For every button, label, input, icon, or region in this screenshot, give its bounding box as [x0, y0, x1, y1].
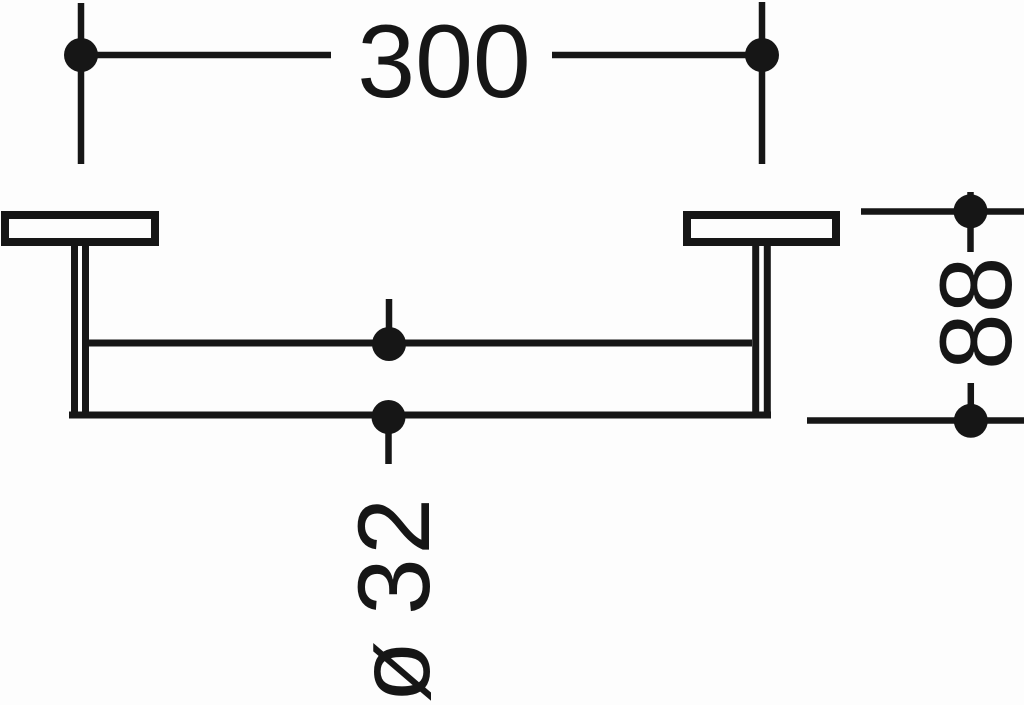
- extension line bottom (88 dim): [807, 417, 1024, 424]
- tick below bottom centre dot (Ø32 dim): [385, 430, 392, 464]
- right stem line b: [764, 244, 771, 415]
- svg-text:300: 300: [357, 4, 531, 120]
- right stem line a: [752, 244, 759, 415]
- extension line top (88 dim): [861, 208, 1024, 215]
- dimension line 300 left segment: [81, 52, 331, 59]
- bar top line: [89, 340, 752, 347]
- top dot terminator (88 dim): [954, 194, 988, 228]
- bottom dot terminator (88 dim): [954, 404, 988, 438]
- dimension line 300 right segment: [552, 52, 762, 59]
- tick above bottom dot (88 dim): [968, 383, 975, 413]
- wall plate left: [5, 215, 155, 242]
- extension line left (300 dim): [78, 3, 85, 164]
- left stem line b: [82, 244, 89, 413]
- bar bottom line: [69, 412, 771, 419]
- extension line right (300 dim): [759, 2, 766, 164]
- left stem line a: [71, 244, 78, 413]
- bottom centre dot (Ø32 dim): [372, 400, 406, 434]
- top centre dot (Ø32 dim): [372, 327, 406, 361]
- svg-text:32: 32: [337, 495, 451, 615]
- tick above top centre dot (Ø32 dim): [386, 299, 393, 332]
- svg-text:ø: ø: [337, 641, 451, 703]
- dot terminator right (300 dim): [745, 38, 779, 72]
- wall plate right: [687, 215, 836, 242]
- dot terminator left (300 dim): [64, 38, 98, 72]
- tick through top dot (88 dim): [967, 192, 974, 252]
- svg-text:88: 88: [919, 257, 1024, 370]
